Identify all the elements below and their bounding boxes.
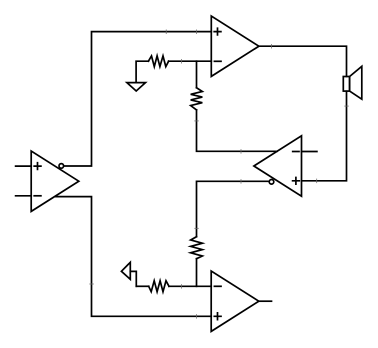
tick output wire U2	[271, 44, 273, 49]
op-amp U4 output stub	[259, 300, 272, 302]
tick speaker column	[344, 105, 349, 107]
op-amp U1 inversion bubble	[59, 164, 64, 169]
wire U1 lower edge down to U4 + input	[56, 197, 211, 317]
tick top wire b	[196, 30, 198, 35]
tick bottom wire	[196, 314, 198, 319]
tick minus wire U4	[181, 284, 183, 289]
resistor R2	[191, 88, 203, 110]
tick mid column upper	[194, 120, 199, 122]
wire U3 bubble left and down to R4	[197, 181, 269, 236]
wire junction R1 node down to R2	[196, 61, 198, 87]
wire R4 down to bottom net	[196, 259, 198, 287]
op-amp U3	[254, 136, 302, 196]
wire R3 to U4 minus input	[169, 285, 211, 287]
wire U2 output to speaker	[259, 46, 347, 76]
wire speaker to U3 + input	[302, 91, 347, 181]
op-amp U4 plus sign	[214, 313, 221, 320]
op-amp U3 plus sign	[293, 178, 300, 185]
wire from R2 to U3 upper edge	[197, 110, 278, 151]
resistor R1	[148, 56, 168, 67]
resistor R3	[149, 281, 169, 292]
tick mid wire upper	[240, 149, 242, 154]
tick plus wire U3	[316, 179, 318, 184]
tick left column	[89, 283, 94, 285]
op-amp U1 minus sign	[34, 195, 41, 197]
op-amp U1 minus input stub	[16, 195, 32, 197]
tick mid wire lower	[240, 179, 242, 184]
flag port symbol	[121, 262, 136, 286]
tick minus wire U2	[181, 59, 183, 64]
op-amp U2	[211, 16, 259, 76]
ground	[127, 83, 146, 91]
op-amp U3 inversion bubble	[269, 180, 274, 185]
ground lead wire	[136, 61, 148, 82]
op-amp U1	[31, 151, 79, 211]
op-amp U3 minus sign	[293, 151, 299, 153]
op-amp U4	[211, 271, 259, 331]
op-amp U1 plus sign	[34, 163, 41, 170]
wire from U1 bubble up left column to U2 + input	[64, 32, 211, 166]
junction tick marks	[89, 30, 349, 319]
op-amp U4 minus sign	[214, 285, 221, 287]
tick top wire a	[165, 30, 167, 35]
resistor R4	[191, 237, 203, 259]
op-amp U2 minus sign	[214, 60, 221, 62]
op-amp U2 plus sign	[214, 28, 221, 35]
op-amp U1 plus input stub	[16, 165, 32, 167]
speaker LS1	[343, 66, 362, 99]
wire flag to R3	[136, 285, 148, 287]
op-amp U2 minus input wire from R1	[169, 60, 212, 62]
tick mid column lower	[194, 227, 199, 229]
op-amp U3 minus input stub	[302, 151, 317, 153]
